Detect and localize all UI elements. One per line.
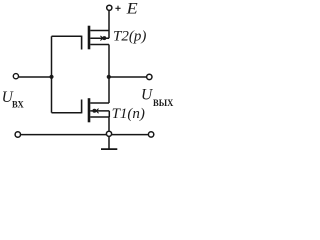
T2 source stub (top) [90,30,109,32]
wire: input terminal to gate junction [19,76,52,78]
T1 source stub (bottom) [90,116,109,118]
svg-text:ВЫХ: ВЫХ [153,97,174,107]
T1 substrate stub (middle) [90,110,109,112]
svg-text:T1(n): T1(n) [112,106,145,122]
wire: T1 source down to ground node [108,117,110,131]
T1 substrate junction dot [92,109,96,113]
wire: +E rail down to T2 source [108,11,110,31]
T1 substrate arrow (points left, n-channel) [96,109,99,114]
ground stem [108,137,110,149]
wire: T2 substrate-to-source jog [108,31,110,39]
bottom-right terminal circle [148,132,153,137]
node: input gate junction dot [49,75,53,79]
svg-text:E: E [126,0,139,17]
T2 drain stub (bottom) [90,44,109,46]
svg-text:U: U [141,86,154,103]
+E supply terminal circle [107,5,112,10]
T2 substrate stub (middle) [90,37,109,39]
transistor T2 channel bar [88,26,91,50]
wire: T2 gate lead [52,35,82,37]
wire: T1 gate lead [52,112,82,114]
T1 drain stub (top) [90,102,109,104]
svg-text:T2(p): T2(p) [113,29,146,45]
transistor T1 channel bar [88,98,91,122]
svg-text:ВХ: ВХ [12,99,24,109]
T2 substrate arrow (points right, p-channel) [100,36,103,41]
wire: T2 drain to T1 drain (output rail) [108,45,110,104]
input terminal circle (Uвх) [13,74,18,79]
wire: bottom rail left segment [21,134,106,136]
wire: gate riser (vertical between both gates) [51,36,53,112]
ground bar [101,148,117,150]
output terminal circle (Uвых) [147,74,152,79]
node: ground junction circle [106,131,111,136]
transistor T2 gate electrode bar [81,36,83,50]
wire: bottom rail right segment [112,134,148,136]
bottom-left terminal circle [15,132,20,137]
wire: output junction to output terminal [109,76,146,78]
node: output junction dot [107,75,111,79]
plus sign of +E label [115,7,120,9]
T2 substrate junction dot [102,36,106,40]
wire: T1 substrate-to-source jog [108,111,110,117]
transistor T1 gate electrode bar [81,100,83,114]
